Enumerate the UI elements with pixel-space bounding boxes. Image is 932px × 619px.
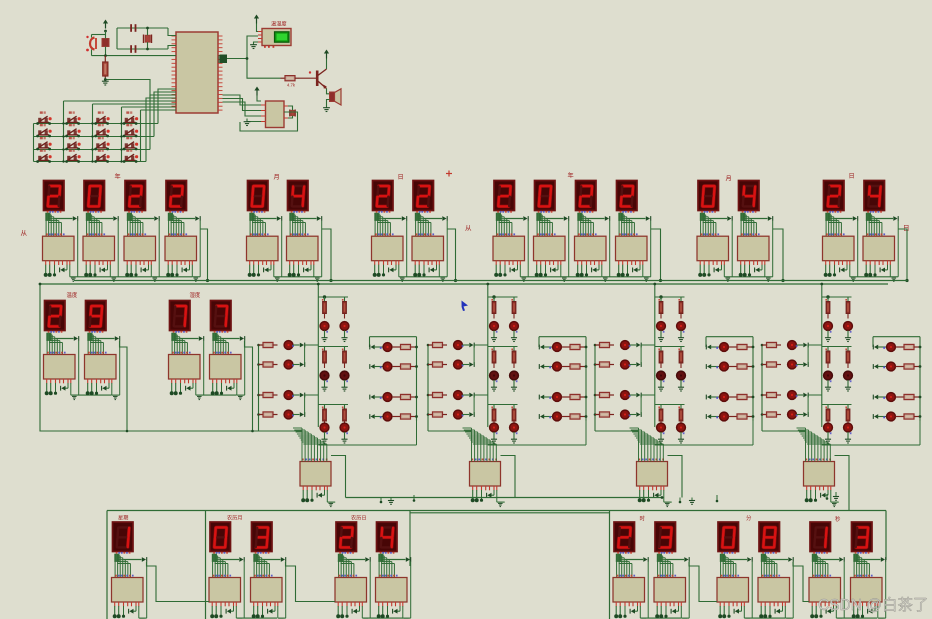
ground / pins under IC SS1 bbox=[811, 602, 813, 606]
LED vertical x828 y404 bbox=[824, 423, 833, 432]
cursor arrow bbox=[462, 301, 469, 312]
7-segment display Y2 bbox=[84, 181, 105, 211]
resistor row right y416 bbox=[392, 416, 401, 418]
resistor row left y364 bbox=[259, 364, 264, 366]
display driver IC HH1 bbox=[613, 578, 645, 603]
display driver IC D2 bbox=[412, 236, 444, 261]
push button S13 bbox=[40, 149, 43, 151]
ground under LED x514 y346 bbox=[513, 380, 515, 387]
ground / pins under driver U13 bbox=[639, 486, 641, 490]
wire tap vertical D3 bbox=[857, 221, 859, 277]
resistor row left y345 bbox=[762, 344, 767, 346]
ground / pins under IC HH2 bbox=[656, 602, 658, 606]
display driver IC H2 bbox=[210, 355, 242, 380]
wire bundle Y5 bbox=[497, 211, 499, 213]
resistor row left y395 bbox=[428, 394, 433, 396]
7-segment display H2 bbox=[211, 301, 232, 331]
wire hour tap bbox=[689, 562, 717, 602]
LED row left y395 bbox=[284, 391, 293, 400]
display driver IC SS2 bbox=[851, 578, 883, 603]
LED row left y395 bbox=[788, 391, 797, 400]
7-segment display MO4 bbox=[739, 181, 760, 211]
svg-text:温度: 温度 bbox=[67, 291, 78, 299]
7-segment display MO2 bbox=[288, 181, 309, 211]
LED row left y345 bbox=[454, 341, 463, 350]
wire bundle T2 bbox=[89, 331, 91, 333]
display driver IC MO4 bbox=[738, 236, 770, 261]
display driver IC MO3 bbox=[697, 236, 729, 261]
7-segment display T2 bbox=[86, 301, 107, 331]
svg-text:温湿度: 温湿度 bbox=[271, 20, 287, 28]
wire tap vertical LM2 bbox=[285, 562, 287, 618]
wire bundle SS2 bbox=[855, 552, 857, 554]
ground / pins under IC MO1 bbox=[249, 261, 251, 265]
display driver IC T2 bbox=[85, 355, 117, 380]
display driver IC D1 bbox=[372, 236, 404, 261]
resistor row left y364 bbox=[762, 364, 767, 366]
wire bundle MM1 bbox=[721, 552, 723, 554]
LED cluster group 3 frame wires bbox=[654, 284, 656, 297]
7-segment display HH1 bbox=[614, 522, 635, 552]
resistor vertical x828 y297 bbox=[827, 297, 829, 302]
resistor vertical x344 y297 bbox=[344, 297, 346, 302]
7-segment display LD2 bbox=[377, 522, 398, 552]
LED row right y416 bbox=[540, 414, 544, 419]
wire bundle MO3 bbox=[701, 211, 703, 213]
LED vertical x848 y346 bbox=[844, 371, 853, 380]
left box frame bbox=[106, 511, 108, 619]
svg-text:从: 从 bbox=[21, 230, 28, 237]
LED vertical x848 y404 bbox=[844, 423, 853, 432]
capacitor C4 bbox=[102, 39, 109, 47]
ground / pins under IC Y4 bbox=[167, 261, 169, 265]
resistor vertical x344 y346 bbox=[344, 347, 346, 352]
resistor vertical x514 y297 bbox=[513, 297, 515, 302]
humidity sensor DHT11 bbox=[262, 29, 291, 46]
wire tap vertical Y5 bbox=[527, 221, 529, 277]
ground under LED x661 y404 bbox=[660, 432, 662, 439]
wire bundle Y4 bbox=[169, 211, 171, 213]
wire bundle LM2 bbox=[255, 552, 257, 554]
LED vertical x681 y297 bbox=[677, 322, 686, 331]
bus wire bottom boxes top bbox=[107, 510, 886, 512]
LED vertical x661 y297 bbox=[657, 322, 666, 331]
resistor vertical x494 y346 bbox=[493, 347, 495, 352]
display driver IC Y3 bbox=[124, 236, 156, 261]
wire bundle Y2 bbox=[87, 211, 89, 213]
LED row right y366 bbox=[874, 364, 878, 369]
ground under LED x344 y346 bbox=[344, 380, 346, 387]
ground under LED x661 y297 bbox=[660, 331, 662, 338]
LED driver IC U13 bbox=[637, 462, 668, 487]
ground / pins under IC Y2 bbox=[85, 261, 87, 265]
wire lunar month tap bbox=[286, 562, 336, 602]
LED row right y347 bbox=[707, 345, 711, 350]
display driver IC Y2 bbox=[83, 236, 115, 261]
wire tap vertical MM1 bbox=[751, 562, 753, 618]
power flag U2 bbox=[256, 90, 258, 96]
resistor row right y366 bbox=[729, 366, 738, 368]
wire tap vertical Y1 bbox=[77, 221, 79, 277]
wire left bus drop bbox=[40, 284, 259, 431]
wire bundle D1 bbox=[376, 211, 378, 213]
wire bundle T1 bbox=[48, 331, 50, 333]
LED row left y414 bbox=[284, 410, 293, 419]
LED row left y414 bbox=[621, 410, 630, 419]
svg-text:农历日: 农历日 bbox=[351, 514, 367, 522]
ground / pins under IC LM2 bbox=[253, 602, 255, 606]
ground under LED x681 y297 bbox=[680, 331, 682, 338]
ground under LED x514 y404 bbox=[513, 432, 515, 439]
wire tap vertical Y7 bbox=[609, 221, 611, 277]
wire week tap bbox=[147, 562, 210, 602]
ground / pins under IC LD2 bbox=[378, 602, 380, 606]
resistor vertical x848 y297 bbox=[847, 297, 849, 302]
7-segment display MO1 bbox=[248, 181, 269, 211]
ground / pins under driver U14 bbox=[806, 486, 808, 490]
display driver IC LM1 bbox=[209, 578, 241, 603]
wire bundle MO4 bbox=[742, 211, 744, 213]
resistor row left y414 bbox=[428, 414, 433, 416]
svg-text:时: 时 bbox=[640, 515, 646, 523]
wire tap vertical D2 bbox=[446, 221, 448, 277]
electrolytic capacitor C3 bbox=[90, 38, 95, 50]
ground under LED x848 y404 bbox=[847, 432, 849, 439]
svg-text:CSDN @白茶了: CSDN @白茶了 bbox=[818, 596, 928, 614]
display driver IC LD1 bbox=[335, 578, 367, 603]
display driver IC SS1 bbox=[809, 578, 841, 603]
resistor row right y347 bbox=[392, 346, 401, 348]
resistor vertical x681 y297 bbox=[680, 297, 682, 302]
LED vertical x514 y346 bbox=[510, 371, 519, 380]
ground / pins under IC HH1 bbox=[615, 602, 617, 606]
7-segment display MM1 bbox=[718, 522, 739, 552]
ground under LED x514 y297 bbox=[513, 331, 515, 338]
LED row right y397 bbox=[874, 395, 878, 400]
LED row right y397 bbox=[371, 395, 375, 400]
resistor row left y414 bbox=[259, 414, 264, 416]
resistor row right y366 bbox=[896, 366, 905, 368]
display driver IC MM1 bbox=[717, 578, 749, 603]
7-segment display D1 bbox=[373, 181, 394, 211]
cluster 4 lower frame wires bbox=[822, 444, 920, 446]
crystal X1 bbox=[143, 35, 145, 44]
wire tap vertical D1 bbox=[406, 221, 408, 277]
ground under LED x494 y346 bbox=[493, 380, 495, 387]
display driver IC Y5 bbox=[493, 236, 525, 261]
resistor vertical x514 y404 bbox=[513, 405, 515, 410]
wire bundle MM2 bbox=[762, 552, 764, 554]
ground sounder bbox=[327, 100, 330, 108]
wire bundle LM1 bbox=[213, 552, 215, 554]
wire fan into driver U13 bbox=[595, 430, 639, 432]
wire Q1 emitter to sounder bbox=[327, 89, 330, 94]
svg-text:从: 从 bbox=[465, 225, 472, 232]
wire tap vertical WK bbox=[146, 562, 148, 618]
resistor row right y397 bbox=[896, 396, 905, 398]
7-segment display Y6 bbox=[535, 181, 556, 211]
bus wire row1 lower bbox=[40, 283, 888, 285]
7-segment display LM2 bbox=[252, 522, 273, 552]
display driver IC MO1 bbox=[247, 236, 279, 261]
LED vertical x324 y297 bbox=[320, 322, 329, 331]
LED vertical x494 y346 bbox=[490, 371, 499, 380]
display driver IC MM2 bbox=[758, 578, 790, 603]
push button S4 bbox=[126, 111, 129, 113]
resistor row right y397 bbox=[729, 396, 738, 398]
resistor R1 bbox=[104, 56, 106, 62]
resistor row right y347 bbox=[896, 346, 905, 348]
resistor vertical x661 y346 bbox=[660, 347, 662, 352]
resistor row right y416 bbox=[729, 416, 738, 418]
LED vertical x494 y297 bbox=[490, 322, 499, 331]
7-segment display Y4 bbox=[166, 181, 187, 211]
ground / pins under IC T2 bbox=[87, 379, 89, 383]
resistor vertical x661 y297 bbox=[660, 297, 662, 302]
wire bundle D3 bbox=[827, 211, 829, 213]
display driver IC MO2 bbox=[287, 236, 319, 261]
7-segment display MO3 bbox=[698, 181, 719, 211]
wire bundle Y3 bbox=[128, 211, 130, 213]
wire bundle WK bbox=[116, 552, 118, 554]
svg-text:年: 年 bbox=[568, 172, 574, 180]
wire bundle HH1 bbox=[617, 552, 619, 554]
svg-text:秒: 秒 bbox=[835, 515, 841, 523]
wire tap vertical D4 bbox=[897, 221, 899, 277]
keypad row bus wires bbox=[34, 123, 159, 125]
stray grounds above bottom boxes left bbox=[380, 498, 382, 502]
wire bundle MO1 bbox=[251, 211, 253, 213]
LED cluster group 2 frame wires bbox=[487, 284, 489, 297]
7-segment display SS1 bbox=[810, 522, 831, 552]
push button S9 bbox=[40, 137, 43, 139]
ground / pins under driver U11 bbox=[302, 486, 304, 490]
wire driver U11 right elbow bbox=[331, 456, 346, 498]
ground / pins under IC Y7 bbox=[577, 261, 579, 265]
wire temp group tap down bbox=[120, 341, 128, 431]
ground under LED x848 y297 bbox=[847, 331, 849, 338]
resistor vertical x848 y346 bbox=[847, 347, 849, 352]
resistor row left y364 bbox=[428, 364, 433, 366]
LED row right y347 bbox=[540, 345, 544, 350]
LED cluster group 4 frame wires bbox=[821, 284, 823, 297]
LED vertical x681 y404 bbox=[677, 423, 686, 432]
cluster 1 lower frame wires bbox=[318, 444, 416, 446]
push button S1 bbox=[40, 111, 43, 113]
push button S14 bbox=[69, 149, 72, 151]
bus wire under clusters bbox=[346, 497, 663, 499]
U2 pin stubs bbox=[261, 104, 266, 106]
U1 left pin stubs bbox=[172, 35, 177, 37]
resistor vertical x681 y346 bbox=[680, 347, 682, 352]
7-segment display Y1 bbox=[44, 181, 65, 211]
7-segment display Y3 bbox=[125, 181, 146, 211]
7-segment display D2 bbox=[413, 181, 434, 211]
wire XTAL rails bbox=[117, 27, 168, 29]
stray grounds above bottom boxes right bbox=[679, 498, 681, 502]
resistor vertical x494 y297 bbox=[493, 297, 495, 302]
7-segment display D3 bbox=[824, 181, 845, 211]
ground under LED x661 y346 bbox=[660, 380, 662, 387]
resistor row right y416 bbox=[896, 416, 905, 418]
resistor row left y345 bbox=[428, 344, 433, 346]
svg-text:日: 日 bbox=[398, 174, 404, 181]
ground / pins under IC D2 bbox=[414, 261, 416, 265]
LED vertical x344 y297 bbox=[340, 322, 349, 331]
resistor row left y395 bbox=[595, 394, 600, 396]
LED row right y366 bbox=[540, 364, 544, 369]
resistor vertical x324 y404 bbox=[324, 405, 326, 410]
resistor row left y364 bbox=[595, 364, 600, 366]
ground under LED x324 y346 bbox=[324, 380, 326, 387]
cluster 2 left feed wire bbox=[427, 345, 429, 431]
wire tap vertical HH1 bbox=[647, 562, 649, 618]
wire tap vertical LD2 bbox=[410, 562, 412, 618]
svg-text:农历月: 农历月 bbox=[227, 514, 243, 522]
LED row left y345 bbox=[284, 341, 293, 350]
bus wire row1 upper bbox=[74, 280, 908, 282]
ground / pins under IC D1 bbox=[374, 261, 376, 265]
LED row left y364 bbox=[454, 360, 463, 369]
resistor vertical x514 y346 bbox=[513, 347, 515, 352]
LED vertical x661 y346 bbox=[657, 371, 666, 380]
transistor Q1 bbox=[300, 77, 317, 79]
cluster 1 right LED rows bbox=[370, 336, 417, 338]
LED vertical x324 y404 bbox=[320, 423, 329, 432]
LED row left y345 bbox=[621, 341, 630, 350]
LED row left y395 bbox=[621, 391, 630, 400]
ground under LED x494 y404 bbox=[493, 432, 495, 439]
ground under LED x344 y297 bbox=[344, 331, 346, 338]
wire tap vertical MO3 bbox=[731, 221, 733, 277]
cluster 3 right LED rows bbox=[706, 336, 753, 338]
wire bundle LD1 bbox=[339, 552, 341, 554]
DHT11 left pin stubs bbox=[258, 31, 262, 33]
resistor row right y366 bbox=[562, 366, 571, 368]
wire tap vertical MM2 bbox=[792, 562, 794, 618]
wire second tap bbox=[885, 559, 888, 561]
LED row right y416 bbox=[874, 414, 878, 419]
inner box frame (lunar) bbox=[205, 511, 207, 619]
wire tap vertical LM1 bbox=[243, 562, 245, 618]
wire bundle Y8 bbox=[620, 211, 622, 213]
wire tap vertical H1 bbox=[203, 341, 205, 395]
ground / pins under driver U12 bbox=[472, 486, 474, 490]
cluster 1 left feed wire bbox=[258, 345, 260, 431]
wire fan into driver U14 bbox=[762, 430, 806, 432]
resistor row right y397 bbox=[562, 396, 571, 398]
microcontroller U1 (AT89C51) bbox=[176, 32, 218, 113]
resistor vertical x848 y404 bbox=[847, 405, 849, 410]
resistor row left y345 bbox=[259, 344, 264, 346]
wire R1 to keypad corridor bbox=[105, 80, 150, 102]
LED driver IC U14 bbox=[804, 462, 835, 487]
LED vertical x514 y404 bbox=[510, 423, 519, 432]
LED vertical x494 y404 bbox=[490, 423, 499, 432]
svg-text:4.7k: 4.7k bbox=[287, 83, 296, 88]
resistor row right y416 bbox=[562, 416, 571, 418]
ground under LED x681 y404 bbox=[680, 432, 682, 439]
wire driver U14 right elbow bbox=[835, 456, 850, 511]
ground / pins under IC SS2 bbox=[853, 602, 855, 606]
LED vertical x324 y346 bbox=[320, 371, 329, 380]
wire U1 to DHT11 data bbox=[227, 36, 258, 59]
base resistor R2 bbox=[281, 77, 286, 79]
LED row right y366 bbox=[707, 364, 711, 369]
resistor vertical x324 y346 bbox=[324, 347, 326, 352]
LED row left y414 bbox=[454, 410, 463, 419]
7-segment display LM1 bbox=[210, 522, 231, 552]
wire bundle MO2 bbox=[291, 211, 293, 213]
wire bundle D2 bbox=[416, 211, 418, 213]
push button S5 bbox=[40, 124, 43, 126]
LED row right y347 bbox=[371, 345, 375, 350]
ground / pins under IC H1 bbox=[171, 379, 173, 383]
ground / pins under IC MM1 bbox=[719, 602, 721, 606]
LED row left y345 bbox=[788, 341, 797, 350]
7-segment display Y5 bbox=[494, 181, 515, 211]
ground U2 bbox=[247, 120, 261, 122]
display driver IC LD2 bbox=[376, 578, 408, 603]
svg-text:日: 日 bbox=[903, 224, 910, 232]
wire tap vertical Y4 bbox=[199, 221, 201, 277]
push button S3 bbox=[98, 111, 101, 113]
ground under LED x344 y404 bbox=[344, 432, 346, 439]
LED vertical x514 y297 bbox=[510, 322, 519, 331]
ground under LED x494 y297 bbox=[493, 331, 495, 338]
LED row right y397 bbox=[707, 395, 711, 400]
LED row left y414 bbox=[788, 410, 797, 419]
wire tap vertical MO4 bbox=[772, 221, 774, 277]
ground under LED x828 y404 bbox=[827, 432, 829, 439]
LED row right y416 bbox=[371, 414, 375, 419]
wire DHT to base resistor bbox=[247, 59, 281, 79]
display driver IC LM2 bbox=[251, 578, 283, 603]
display driver IC Y1 bbox=[43, 236, 75, 261]
push button S10 bbox=[69, 137, 72, 139]
cursor crosshair bbox=[446, 173, 452, 175]
ground / pins under IC WK bbox=[114, 602, 116, 606]
power flag Q1 collector bbox=[326, 53, 328, 59]
wire hum group tap down bbox=[245, 341, 253, 431]
push button S2 bbox=[69, 111, 72, 113]
wire bundle Y1 bbox=[47, 211, 49, 213]
resistor row right y347 bbox=[729, 346, 738, 348]
svg-text:月: 月 bbox=[726, 176, 732, 183]
ground below R1 bbox=[104, 78, 106, 82]
crystal X2 bbox=[289, 110, 291, 117]
svg-text:分: 分 bbox=[746, 514, 752, 522]
ground / pins under IC Y5 bbox=[495, 261, 497, 265]
7-segment display T1 bbox=[45, 301, 66, 331]
ground / pins under IC MM2 bbox=[760, 602, 762, 606]
wire tap vertical MO2 bbox=[321, 221, 323, 277]
LED cluster group 1 frame wires bbox=[317, 284, 319, 297]
7-segment display Y8 bbox=[617, 181, 638, 211]
svg-text:星期: 星期 bbox=[118, 515, 128, 522]
wire bundle SS1 bbox=[813, 552, 815, 554]
cluster 2 lower frame wires bbox=[488, 444, 586, 446]
display driver IC WK bbox=[112, 578, 144, 603]
ground / pins under IC MO4 bbox=[740, 261, 742, 265]
resistor vertical x494 y404 bbox=[493, 405, 495, 410]
wire bundle Y7 bbox=[579, 211, 581, 213]
cluster 1 vertical resistor-LED pairs bbox=[323, 295, 326, 298]
display driver IC D4 bbox=[863, 236, 895, 261]
resistor vertical x828 y346 bbox=[827, 347, 829, 352]
7-segment display H1 bbox=[170, 301, 191, 331]
ground / pins under IC MO3 bbox=[699, 261, 701, 265]
